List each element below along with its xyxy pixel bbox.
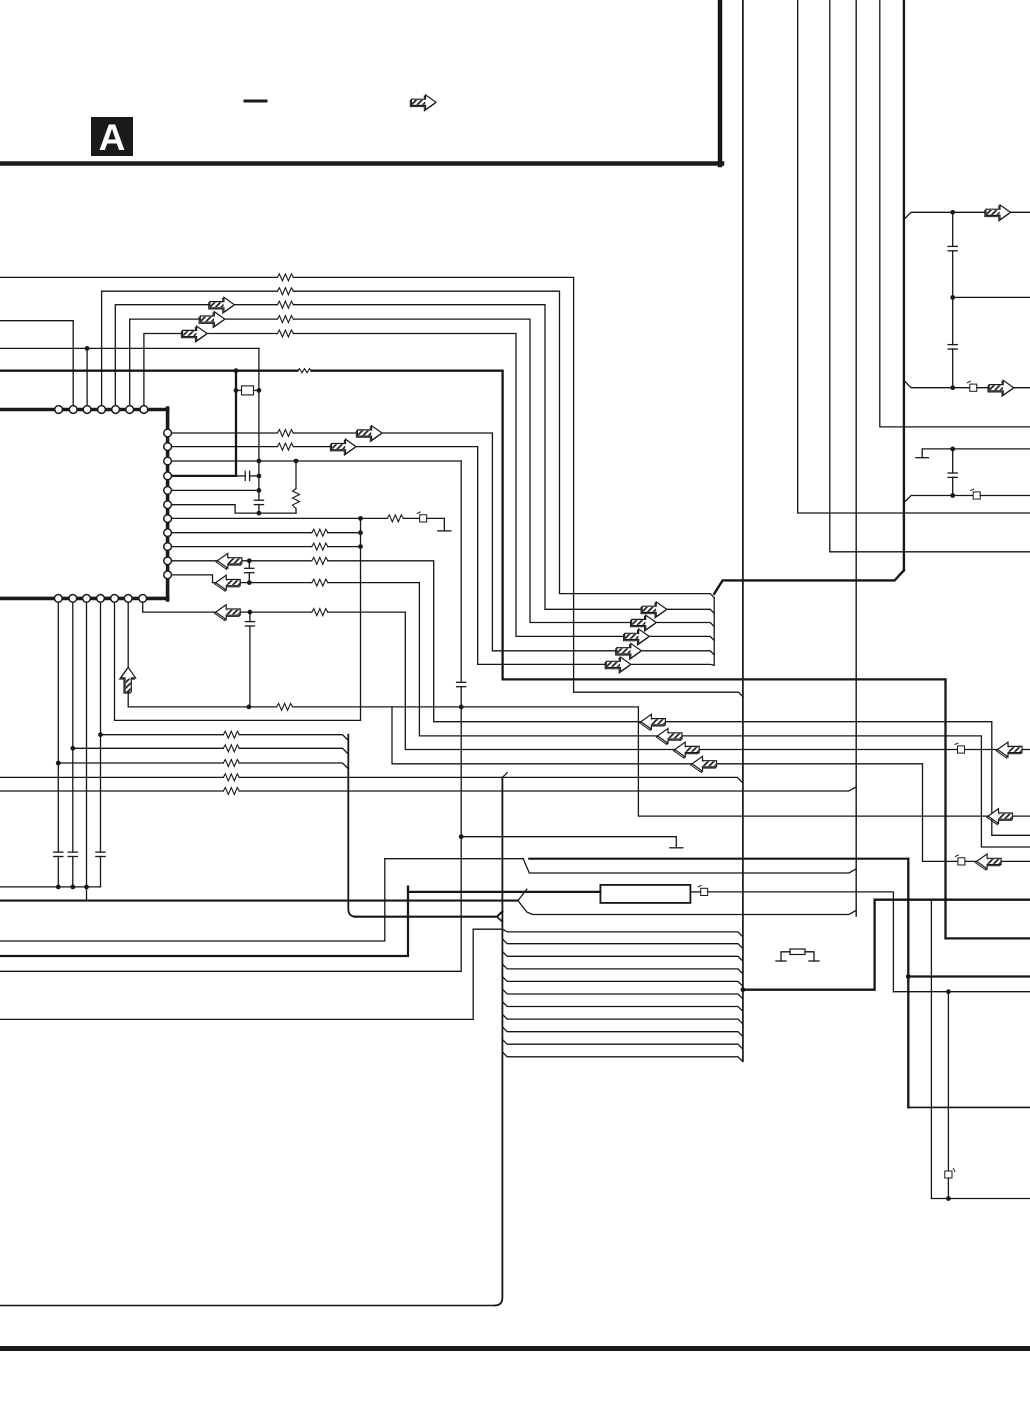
wire cap chain x952 upper — [952, 212, 954, 246]
bead FB3 — [955, 855, 965, 865]
wire thick y886 into delay box — [408, 887, 600, 892]
node b7 — [56, 761, 61, 766]
bead FB4 — [967, 381, 977, 391]
resistor R10 vertical — [295, 461, 297, 489]
wire DL1 out cont — [708, 892, 894, 992]
ground G3 — [670, 847, 683, 849]
wire pin line p3 — [168, 460, 461, 462]
wire net1 cont — [293, 277, 743, 696]
signal arrow net4 lower — [631, 615, 657, 631]
node y886 a — [56, 885, 61, 890]
wire cap chain x952 lower — [952, 449, 954, 473]
node p11 — [247, 580, 252, 585]
wire net1 top line 1 — [0, 276, 277, 278]
legend arrow — [410, 95, 436, 111]
resistor R13 — [312, 543, 328, 550]
wire cap chain cont — [952, 251, 954, 345]
wire cap branch cont2 — [249, 626, 251, 707]
wire harness line 6 — [502, 989, 742, 998]
signal arrow b2 up — [120, 667, 136, 693]
wire thick y976 — [908, 975, 1030, 977]
wire pin line p2 — [168, 446, 277, 448]
node p9 — [358, 544, 363, 549]
wire net7 vertical x259 below cap — [258, 505, 260, 513]
capacitor C7 — [245, 622, 254, 626]
node y297 — [950, 295, 955, 300]
wire cap branch x249 — [248, 561, 250, 569]
wire cap chain cont3 — [952, 477, 954, 495]
wire harness line 11 — [502, 1052, 742, 1061]
wire p7 cont — [403, 517, 419, 519]
node b2 — [247, 705, 252, 710]
wire cap branch x249 lower — [249, 612, 251, 622]
wire net6 upper left — [0, 321, 73, 408]
node box junction right — [257, 388, 262, 393]
node bus x742 thick branch — [741, 987, 746, 992]
wire y991 — [893, 991, 1030, 993]
node y387 — [950, 385, 955, 390]
signal arrow y387 — [988, 380, 1014, 396]
signal arrow p11 — [215, 575, 241, 591]
IC U1 bottom pins — [54, 595, 146, 603]
wire line y748 — [73, 747, 224, 749]
wire main thick y900 — [0, 900, 518, 902]
wire b2 branch cont — [965, 860, 1030, 862]
capacitor C10 — [68, 852, 77, 856]
signal arrow b2 branch — [691, 756, 717, 772]
wire y836 — [461, 837, 676, 848]
node p6 — [257, 511, 262, 516]
wire thick y858 — [529, 858, 908, 860]
wire x948 cont — [947, 1178, 949, 1199]
signal arrow b1 east — [674, 742, 700, 758]
wire y387 bead lead — [953, 387, 970, 389]
wire p7 to ground — [427, 518, 445, 531]
bus BV1 output thick — [354, 911, 502, 916]
wire pin line p7 — [168, 517, 387, 519]
capacitor C3 — [948, 473, 957, 477]
signal arrow net5 lower — [624, 629, 650, 645]
vertical line x879 — [880, 0, 1030, 427]
wire pin line p4 thin part with series cap — [236, 475, 245, 477]
node net8 junction x236 — [234, 368, 239, 373]
harness bundle between buses — [473, 929, 742, 1061]
wire p9 cont — [328, 546, 361, 548]
wire p1 cont — [293, 433, 714, 655]
resistor R4 — [277, 316, 293, 323]
bead FB1 — [417, 512, 427, 522]
resistor R16 — [312, 609, 328, 616]
resistor R14 — [312, 557, 328, 564]
wire net2 top line 2 — [102, 291, 278, 408]
wire net3 cont — [293, 305, 714, 614]
resistor R20 — [223, 760, 239, 767]
capacitor C6 — [245, 568, 254, 572]
resistor R7 box — [242, 386, 254, 395]
wire y900 jog spur up — [518, 889, 527, 900]
wire net5 top line 5 — [144, 334, 278, 409]
capacitor C5 series — [245, 471, 249, 480]
wire branch y495 — [904, 496, 953, 503]
legend dash — [245, 100, 266, 103]
wire x948 down — [947, 992, 949, 1171]
node y886 b — [70, 885, 75, 890]
node b1 — [248, 610, 253, 615]
svg-text:A: A — [99, 117, 126, 158]
wire harness line 10 — [502, 1039, 742, 1048]
capacitor C1 — [948, 246, 957, 250]
signal arrow p10 — [216, 553, 242, 569]
wire x360 riser — [115, 518, 361, 720]
wire p10 cont east — [328, 561, 1030, 836]
signal arrow p2 — [330, 439, 356, 455]
collector bus C1 — [713, 598, 715, 666]
node y448 — [950, 447, 955, 452]
resistor R6 inline small — [298, 369, 312, 373]
resistor R15 — [312, 579, 328, 586]
vertical bus x903 — [903, 0, 905, 570]
signal arrow p10 east — [640, 714, 666, 730]
node box junction left — [234, 388, 239, 393]
vertical line x829 — [830, 0, 1030, 552]
node p10 — [247, 558, 252, 563]
wire bus entry lower chamfer — [497, 917, 502, 922]
node b6 — [70, 746, 75, 751]
wire harness line 4 — [502, 964, 742, 973]
long bus x742 — [742, 0, 744, 1061]
ground G1 — [916, 457, 929, 459]
wire branch y387 — [904, 381, 953, 388]
node y495 — [950, 493, 955, 498]
signal arrow b2 branch edge — [975, 854, 1001, 870]
capacitor C4 on x258 — [254, 500, 263, 504]
wire net5 cont — [293, 334, 714, 641]
wire cap branch cont — [248, 573, 250, 583]
wire net9 thick vertical x236 — [235, 371, 237, 476]
wire line y777 from left — [0, 776, 223, 778]
signal arrow b2 edge — [987, 809, 1013, 825]
wire pin line p1 — [168, 432, 277, 434]
wire y495 cont — [980, 495, 1030, 497]
wire y873 jog — [523, 859, 856, 873]
node p3 x258 — [257, 459, 262, 464]
vertical line x797 — [798, 0, 1030, 513]
wire net7 with junction — [0, 347, 259, 349]
resistor R9 — [277, 443, 293, 450]
wire p8 cont — [328, 532, 361, 534]
node p5 — [257, 488, 262, 493]
resistor R5 — [277, 330, 293, 337]
IC U1 outline top edge — [0, 408, 168, 412]
resistor R7 leads — [236, 389, 242, 391]
wire branch y212 — [904, 212, 1030, 219]
IC U1 outline right edge — [166, 408, 170, 600]
block A border right edge — [718, 0, 723, 165]
wire net7 drop to pin — [86, 348, 88, 408]
signal arrow net3 — [209, 297, 235, 313]
block A border bottom edge — [0, 161, 722, 166]
jumper J1 box — [790, 949, 805, 955]
signal arrow p11 east — [656, 729, 682, 745]
wire harness line 3 — [502, 952, 742, 961]
node y1198 — [946, 1196, 951, 1201]
node y836 — [459, 834, 464, 839]
wire p11 cont east — [328, 583, 1030, 847]
wire harness line 9 — [502, 1027, 742, 1036]
node net7 junction — [85, 346, 90, 351]
wire harness line 1 — [473, 929, 742, 936]
wire net2 cont — [293, 291, 714, 597]
IC U1 right pins — [164, 429, 172, 579]
bead FB6 — [698, 885, 708, 895]
wire pin line p9 — [168, 546, 312, 548]
bottom rail thick line — [0, 1346, 1030, 1351]
wire outline bottom left — [0, 1305, 494, 1307]
capacitor C8 — [457, 682, 466, 686]
wire thick y899 right — [875, 899, 1030, 901]
wire harness line 2 — [502, 939, 742, 948]
capacitor C2 — [948, 345, 957, 349]
wire line y763 — [58, 762, 223, 764]
wire cap chain cont2 — [952, 349, 954, 388]
wire y495 bead lead — [953, 495, 974, 497]
vertical line x856 collector — [855, 0, 857, 916]
wire pin line p6 jog — [168, 505, 296, 513]
IC U1 top pins — [55, 406, 148, 414]
wire bottom pin b1 — [143, 600, 312, 612]
signal arrow net5 — [181, 326, 207, 342]
bead FB5 — [971, 489, 981, 499]
wire y858 thin west — [0, 859, 523, 941]
wire net8 cont thick — [312, 371, 1030, 939]
wire p3 vertical x461 — [460, 461, 462, 682]
node y991 — [946, 989, 951, 994]
wire net9 thick to IC pin — [168, 475, 236, 477]
wire b2 resistor lead — [249, 706, 277, 708]
node p7 x360 — [358, 516, 363, 521]
wire thick branch right — [743, 900, 875, 990]
resistor R11 — [387, 515, 403, 522]
wire gnd stub y448 — [922, 449, 953, 458]
node p4 — [257, 474, 262, 479]
wire harness line 8 — [502, 1014, 742, 1023]
wire main thick net8 horizontal — [0, 370, 298, 372]
jumper J1 legs — [781, 952, 790, 961]
wire harness line 5 — [502, 977, 742, 986]
resistor R17 — [277, 703, 293, 710]
signal arrow b1 — [215, 605, 241, 621]
bus BV2 x502 with rounded corner — [494, 777, 502, 1305]
resistor R18 — [223, 731, 239, 738]
section label A — [91, 117, 133, 158]
signal arrow net4 — [199, 312, 225, 328]
wire line y791 cont — [239, 787, 856, 791]
signal arrow b1 edge — [996, 742, 1022, 758]
wire line y748 cont — [239, 748, 348, 754]
wire bottom pin b2 — [128, 600, 249, 707]
wire bottom pin b5 — [86, 600, 88, 901]
wire pin line p8 — [168, 532, 312, 534]
wire line y734 cont — [239, 735, 348, 741]
wire bottom pin b6 — [72, 600, 74, 852]
bead FB2 — [955, 743, 965, 753]
wire pin line p10 — [168, 560, 312, 562]
wire bottom pin b4 — [100, 600, 102, 735]
wire p2 cont — [293, 447, 714, 666]
signal arrow p2 lower — [605, 657, 631, 673]
resistor R8 — [277, 430, 293, 437]
wire b1 cont to edge — [965, 749, 1030, 751]
capacitor C9 — [54, 852, 63, 856]
node b2 x461 — [459, 705, 464, 710]
signal arrow p1 — [356, 426, 382, 442]
wire x931 down — [931, 900, 1030, 1199]
signal arrow net3 lower — [641, 602, 667, 618]
wire caps to gnd line — [57, 857, 59, 887]
wire net4 top line 4 — [130, 319, 278, 408]
bus BV1 x348 — [348, 735, 356, 917]
wire gnd line y886 — [0, 886, 101, 888]
node y212 — [950, 210, 955, 215]
wire p3 vertical below cap — [0, 687, 461, 972]
wire y1107 — [908, 1106, 1030, 1108]
signal arrow p1 lower — [616, 643, 642, 659]
signal arrow y212 — [985, 205, 1011, 221]
wire branch y448 — [953, 448, 1030, 450]
resistor R1 — [277, 274, 293, 281]
wire line y791 from left — [0, 790, 223, 792]
IC U1 outline bottom edge — [0, 597, 168, 601]
wire b2 branch x392 — [392, 707, 958, 862]
wire branch y297 — [953, 296, 1030, 298]
wire bottom pin b7 — [57, 600, 59, 852]
resistor R3 — [277, 301, 293, 308]
wire pin line p5 — [168, 489, 259, 491]
wire y387 cont — [977, 387, 1030, 389]
wire line y763 cont — [239, 763, 348, 769]
wire line y777 cont — [239, 777, 743, 783]
node p3 x296 — [294, 459, 299, 464]
resistor R21 — [223, 774, 239, 781]
ground G2 — [438, 530, 451, 532]
node b4 — [98, 732, 103, 737]
wire thick vertical x908 — [907, 859, 909, 1108]
capacitor C11 — [96, 852, 105, 856]
wire pin line p11 jog — [168, 575, 312, 583]
resistor R19 — [223, 745, 239, 752]
node p8 — [358, 530, 363, 535]
resistor R22 — [223, 788, 239, 795]
wire b1 cont east — [328, 612, 958, 749]
wire net3 top line 3 — [115, 305, 277, 408]
bead FB7 vertical — [945, 1169, 955, 1179]
wire b2 cont — [293, 707, 1030, 816]
wire y900 jog to y914 — [518, 901, 856, 915]
wire line y734 — [101, 734, 224, 736]
node y976 — [906, 974, 911, 979]
wire net4 cont — [293, 319, 714, 626]
wire DL1 out lead — [690, 891, 700, 893]
node y886 c — [84, 885, 89, 890]
wire harness line 7 — [502, 1002, 742, 1011]
wire p4 cont — [250, 475, 259, 477]
collector C1 output thick — [714, 570, 904, 594]
resistor R12 — [312, 529, 328, 536]
wire thick y956 — [0, 887, 408, 956]
wire y1019 — [0, 929, 473, 1019]
resistor R2 — [277, 288, 293, 295]
wire bus top stub — [502, 773, 507, 778]
wire net7 vertical x259 — [258, 348, 260, 500]
delay line DL1 box — [600, 885, 690, 903]
